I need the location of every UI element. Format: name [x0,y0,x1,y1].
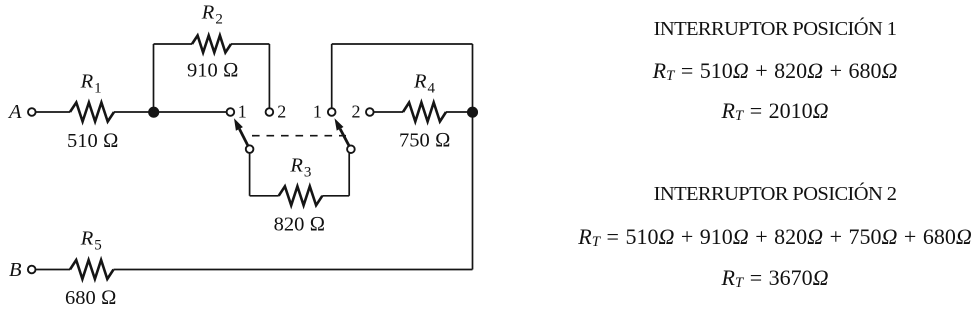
wire arm down right [348,153,350,196]
wire R2 to corner [231,43,269,45]
svg-text:750 Ω: 750 Ω [399,130,451,152]
switch S1 arm [239,129,248,146]
equation RT position 1 [555,58,979,84]
svg-text:R4: R4 [413,70,436,96]
wire junction up [153,44,155,112]
svg-text:R1: R1 [80,71,102,97]
title interruptor posicion 1 [555,18,979,41]
switch S1 pole contact 1 [227,108,235,116]
wire R3 to right arm [322,195,349,197]
svg-text:A: A [7,101,22,123]
wire down to contact 2 [268,44,270,108]
svg-text:2: 2 [277,101,286,121]
equation RT position 2 [555,224,979,250]
switch S1 arm pivot [246,145,254,153]
svg-text:510 Ω: 510 Ω [67,130,119,152]
wire right vertical [472,44,474,270]
svg-text:680 Ω: 680 Ω [65,287,117,309]
resistor R3 [279,186,323,205]
svg-text:R3: R3 [289,155,311,181]
wire arm down left [249,153,251,196]
wire R4 to node [446,111,473,113]
svg-text:1: 1 [238,101,247,121]
wire R1 to switch pole [114,111,227,113]
terminal A [28,108,36,116]
svg-text:2: 2 [352,101,361,121]
wire B to R5 [35,269,70,271]
wire top left to R2 [154,43,193,45]
node junction dot [149,108,158,117]
switch S1 contact 2 [266,108,274,116]
equation RT total 1 [555,98,979,124]
resistor R1 [70,103,114,122]
svg-text:910 Ω: 910 Ω [187,60,239,82]
switch S2 contact 2 [366,108,374,116]
switch S2 arm pivot [347,145,355,153]
wire bottom [114,269,473,271]
svg-text:B: B [9,259,22,281]
wire pole up [331,44,333,108]
resistor R5 [70,260,114,279]
wire top right branch [332,43,473,45]
wire to R3 [250,195,279,197]
terminal B [28,266,36,274]
switch S2 arm [340,129,349,146]
resistor R4 [403,103,446,122]
svg-text:R2: R2 [201,2,223,28]
wire contact2 to R4 [374,111,404,113]
svg-text:820 Ω: 820 Ω [274,214,326,236]
title interruptor posicion 2 [555,183,979,206]
svg-text:R5: R5 [80,228,102,254]
wire A to R1 [36,111,71,113]
coupling dashed line [252,135,346,137]
resistor R2 [192,36,231,53]
switch S2 pole contact 1 [328,108,336,116]
equation RT total 2 [555,265,979,291]
node dot right [468,108,477,117]
svg-text:1: 1 [313,101,322,121]
